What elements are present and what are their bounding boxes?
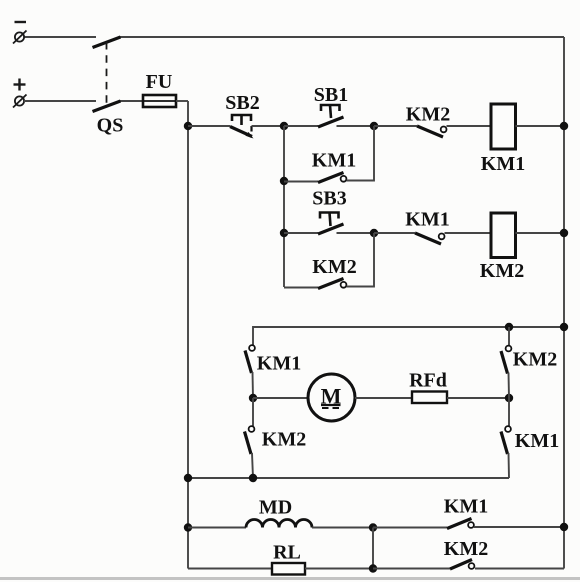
svg-text:KM1: KM1 <box>257 353 301 375</box>
wire node A branch down <box>283 126 285 287</box>
wire bridge top <box>253 326 564 328</box>
wire riser node B down <box>373 126 375 182</box>
wire KM2 TR to node M2 <box>508 373 511 399</box>
wire motor to RFd <box>355 397 412 399</box>
wire KM2 BL to bridge bottom <box>252 453 253 478</box>
svg-text:MD: MD <box>259 497 292 519</box>
svg-text:KM2: KM2 <box>262 429 306 451</box>
switch QS blade bottom <box>93 101 121 112</box>
pushbutton SB2 blade barb <box>246 132 254 139</box>
node left rail bridge bottom <box>184 474 192 482</box>
wire SB2 to node A <box>252 125 285 127</box>
pushbutton SB1 contact blade <box>318 117 344 127</box>
node junction left rail rung1 <box>184 122 192 130</box>
wire riser node D down <box>372 528 374 569</box>
contact KM2 NC rung1 blade <box>417 126 443 137</box>
wire KM2 aux rung left <box>284 287 318 289</box>
pushbutton SB3 contact blade <box>318 224 344 234</box>
svg-text:KM2: KM2 <box>444 538 488 560</box>
node C junction <box>370 229 378 237</box>
svg-text:SB1: SB1 <box>314 84 348 106</box>
svg-text:KM1: KM1 <box>405 209 449 231</box>
svg-text:KM1: KM1 <box>444 496 488 518</box>
wire node M1 down <box>252 398 254 426</box>
switch QS blade top <box>93 37 121 48</box>
wire node D to KM1 NO <box>373 527 447 529</box>
wire SB1 to node B <box>337 125 375 127</box>
svg-text:SB3: SB3 <box>312 188 346 210</box>
node minus label <box>15 21 27 23</box>
coil KM1 <box>491 104 516 149</box>
node A2 junction <box>280 177 288 185</box>
wire node A to SB1 <box>284 125 318 127</box>
pushbutton SB3 actuator <box>320 213 339 227</box>
fuse FU <box>143 95 176 107</box>
contact KM2 bridge TR blade <box>501 351 508 374</box>
svg-text:KM2: KM2 <box>513 349 557 371</box>
wire rung1 left <box>188 125 230 127</box>
node M1 junction <box>249 394 257 402</box>
wire RL rung left <box>188 568 272 570</box>
wire KM2 aux to riser <box>347 286 375 288</box>
node right rail rung1 <box>560 122 568 130</box>
contact KM1 NO bottom circle <box>468 522 474 528</box>
wire top pole <box>24 36 564 38</box>
svg-text:RL: RL <box>273 542 301 564</box>
node M2 junction <box>505 394 513 402</box>
wire KM1 aux rung left <box>284 181 318 183</box>
contact KM1 bridge BR circle <box>505 426 511 432</box>
node bridge bottom left column <box>249 474 257 482</box>
node plus label <box>14 79 26 91</box>
contact KM2 NO aux circle <box>341 282 347 288</box>
svg-text:KM1: KM1 <box>312 150 356 172</box>
wire coil KM2 to right rail <box>516 232 565 234</box>
pushbutton SB2 contact blade <box>230 127 252 137</box>
wire right rail <box>563 37 565 569</box>
wire riser node C down <box>373 233 375 288</box>
node A3 junction <box>280 229 288 237</box>
wire bridge left column upper <box>252 326 254 345</box>
motor M <box>308 374 355 421</box>
resistor RFd <box>412 392 447 404</box>
wire bottom pole <box>24 100 143 102</box>
wire fuse to left rail corner <box>176 100 188 102</box>
wire KM2 NO to right rail corner <box>475 568 564 570</box>
wire KM1 BR to bridge bottom <box>508 453 511 478</box>
wire node M2 down <box>508 398 510 426</box>
contact KM2 NC rung1 hook <box>441 126 447 132</box>
wire left rail <box>187 101 189 569</box>
inductor MD <box>246 520 312 528</box>
wire KM1 aux to riser <box>347 180 375 182</box>
node A junction <box>280 122 288 130</box>
svg-text:FU: FU <box>146 71 173 93</box>
contact KM1 NC rung2 hook <box>439 234 445 240</box>
wire node M1 to motor <box>253 397 308 399</box>
node right rail bridge top <box>560 323 568 331</box>
pushbutton SB1 actuator <box>321 105 340 118</box>
svg-text:KM1: KM1 <box>481 153 525 175</box>
resistor RL <box>272 563 305 575</box>
svg-text:KM2: KM2 <box>406 104 450 126</box>
svg-text:QS: QS <box>97 115 124 137</box>
wire node C to KM1 NC <box>374 232 415 234</box>
contact KM2 bridge BL blade <box>245 432 252 455</box>
node E junction <box>369 564 377 572</box>
node B junction <box>370 122 378 130</box>
node right rail MD rung <box>560 523 568 531</box>
wire node B to KM2 NC <box>374 125 417 127</box>
wire RL to node E <box>305 568 373 570</box>
pushbutton SB2 fixed tick <box>250 126 252 132</box>
wire SB3 to node C <box>337 232 375 234</box>
coil KM2 <box>491 213 516 258</box>
wire node E to KM2 NO <box>373 568 450 570</box>
node right rail rung2 <box>560 229 568 237</box>
svg-text:KM2: KM2 <box>480 260 524 282</box>
contact KM1 bridge BR blade <box>501 432 508 455</box>
wire KM1 TL to node M1 <box>252 372 255 398</box>
wire coil KM1 to right rail <box>516 125 565 127</box>
terminal minus <box>13 31 27 44</box>
switch QS linkage dashed <box>106 42 108 104</box>
pushbutton SB2 actuator <box>232 115 251 125</box>
wire KM1 NO to right rail <box>474 526 564 528</box>
contact KM1 bridge TL circle <box>249 345 255 351</box>
contact KM1 NO aux blade <box>318 173 344 183</box>
wire MD to node D <box>312 527 373 529</box>
contact KM2 NO bottom circle <box>469 563 475 569</box>
contact KM1 bridge TL blade <box>245 351 252 374</box>
contact KM2 NO bottom blade <box>450 560 472 570</box>
wire bridge right column upper <box>508 327 510 345</box>
wire RFd to node M2 <box>447 397 509 399</box>
contact KM1 NO bottom blade <box>447 519 472 529</box>
photo edge shading bottom <box>0 577 580 580</box>
wire KM2 NC to coil KM1 <box>447 125 492 127</box>
terminal plus <box>13 95 27 108</box>
contact KM2 NO aux blade <box>318 279 344 289</box>
contact KM1 NO aux circle <box>341 176 347 182</box>
contact KM1 NC rung2 blade <box>415 233 441 244</box>
svg-text:KM1: KM1 <box>515 430 559 452</box>
svg-text:KM2: KM2 <box>312 256 356 278</box>
svg-text:RFd: RFd <box>409 370 447 392</box>
wire rung2 left <box>284 232 318 234</box>
wire MD rung left <box>188 527 246 529</box>
contact KM2 bridge BL circle <box>249 426 255 432</box>
contact KM2 bridge TR circle <box>506 346 512 352</box>
wire KM1 NC to coil KM2 <box>445 232 492 234</box>
node bridge top right <box>505 323 513 331</box>
node left rail MD rung <box>184 523 192 531</box>
svg-text:SB2: SB2 <box>225 92 259 114</box>
node D junction <box>369 523 377 531</box>
wire bridge bottom <box>188 477 509 479</box>
